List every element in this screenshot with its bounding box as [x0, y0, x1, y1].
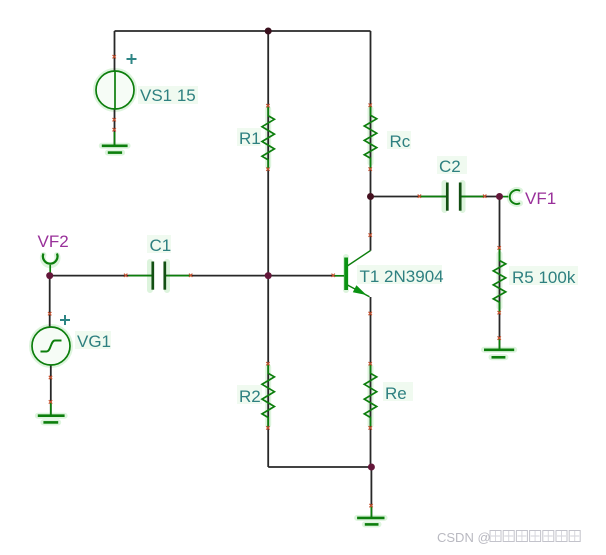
svg-text:Re: Re: [385, 384, 407, 403]
svg-text:R1: R1: [239, 129, 261, 148]
svg-text:VF1: VF1: [525, 189, 556, 208]
svg-text:T1 2N3904: T1 2N3904: [360, 267, 444, 286]
svg-text:VS1 15: VS1 15: [140, 86, 196, 105]
svg-text:R5 100k: R5 100k: [512, 268, 576, 287]
svg-text:VF2: VF2: [38, 232, 69, 251]
svg-text:R2: R2: [239, 387, 261, 406]
svg-text:VG1: VG1: [77, 332, 111, 351]
svg-text:CSDN @: CSDN @: [437, 530, 491, 545]
svg-text:C1: C1: [150, 236, 172, 255]
svg-text:Rc: Rc: [390, 132, 411, 151]
svg-text:C2: C2: [439, 157, 461, 176]
